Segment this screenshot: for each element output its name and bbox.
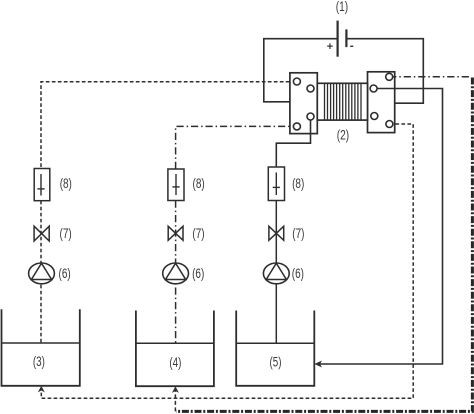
valve V2 (168, 226, 183, 240)
tank 3 (2, 309, 80, 386)
svg-text:(7): (7) (192, 225, 204, 241)
pump P3 (263, 263, 289, 284)
svg-text:+: + (327, 41, 333, 53)
valve V3 (269, 226, 284, 240)
svg-text:(8): (8) (193, 175, 205, 191)
svg-text:(1): (1) (336, 0, 348, 14)
svg-text:(3): (3) (33, 353, 45, 369)
solid return pipe cell right to tank5 (317, 89, 443, 365)
arrow into tank3 (38, 386, 45, 393)
flow meter F3 (268, 167, 284, 201)
right end plate of cell (368, 72, 395, 133)
tank 5 (236, 311, 314, 386)
svg-text:-: - (350, 39, 354, 53)
svg-text:(4): (4) (169, 354, 181, 370)
dashed return pipe cell right to tank3 (41, 124, 413, 398)
tank 3 liquid level (2, 342, 80, 344)
bolt hole circles on left end plate (293, 78, 314, 130)
svg-text:(7): (7) (292, 225, 304, 241)
pump P1 (29, 263, 55, 284)
svg-text:(8): (8) (292, 175, 304, 191)
cell stack body (317, 83, 367, 120)
arrow into tank4 (172, 386, 179, 393)
svg-text:(6): (6) (192, 265, 204, 281)
bolt hole circles on right end plate (370, 73, 393, 127)
column 1 dashed pipe through valve and pump (40, 201, 42, 343)
pump P2 (163, 263, 189, 284)
flow meter F1 (34, 169, 50, 201)
left end plate of cell (290, 73, 317, 134)
tank 4 liquid level (136, 342, 214, 344)
svg-text:(7): (7) (60, 225, 72, 241)
wire battery right to right end plate (346, 39, 423, 104)
dash-dot return riser into tank4 (174, 390, 176, 412)
battery B1 long plate (+) (337, 21, 339, 57)
flow meter F2 (168, 169, 184, 201)
dashed supply pipe tank3 to cell top-left port (41, 82, 293, 167)
battery B1 short plate (-) (345, 29, 347, 47)
svg-text:(8): (8) (60, 175, 72, 191)
dash-dot supply pipe tank4 to cell bottom-left port (176, 126, 293, 169)
solid pipe cell bottom port to flow meter of tank5 line (276, 117, 310, 168)
column 3 solid pipe through valve and pump (275, 201, 277, 344)
arrow into tank5 (314, 361, 322, 368)
wire battery left to left end plate (264, 39, 338, 102)
svg-text:(6): (6) (292, 265, 304, 281)
svg-text:(2): (2) (337, 127, 349, 143)
svg-text:(6): (6) (59, 265, 71, 281)
tank 4 (136, 311, 214, 387)
cell stack hatch lines (325, 83, 362, 120)
dash-dot return pipe cell right (thin part) (389, 76, 471, 78)
svg-text:(5): (5) (270, 354, 282, 370)
dash-dot return pipe thick right edge and bottom (176, 78, 472, 412)
tank 5 liquid level (236, 342, 314, 344)
valve V1 (34, 226, 49, 241)
column 2 dash-dot pipe through valve and pump (175, 201, 177, 344)
